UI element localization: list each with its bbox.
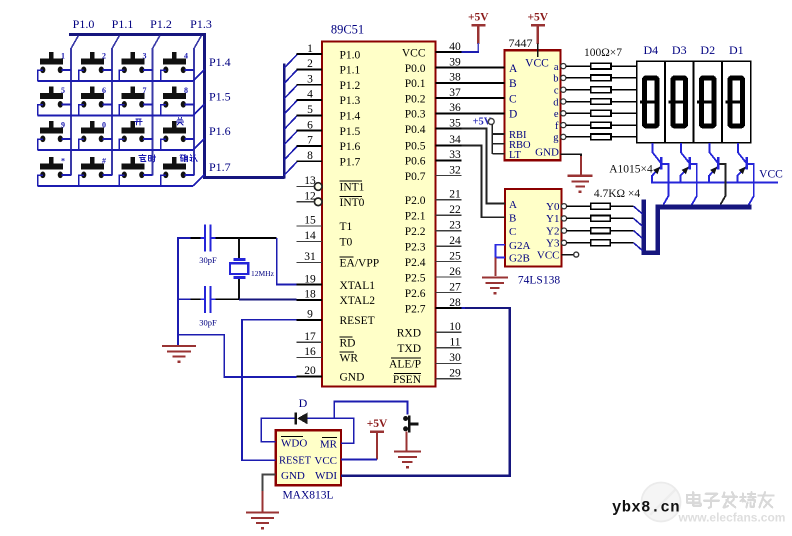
svg-text:32: 32 bbox=[449, 164, 461, 176]
svg-text:g: g bbox=[553, 133, 559, 144]
svg-text:P1.5: P1.5 bbox=[340, 126, 361, 138]
svg-text:D4: D4 bbox=[643, 43, 658, 57]
svg-text:P2.2: P2.2 bbox=[405, 226, 426, 238]
C1 left blue lead bbox=[178, 237, 191, 239]
svg-text:VCC: VCC bbox=[525, 58, 549, 70]
74LS138 VCC stub bbox=[562, 254, 574, 256]
pushbutton key 4 (row 1, col 4) bbox=[172, 52, 177, 59]
transistor Q1 A1015 (PNP) bbox=[652, 143, 654, 153]
display divider bbox=[664, 61, 666, 143]
svg-text:12MHz: 12MHz bbox=[251, 269, 275, 278]
svg-text:P1.1: P1.1 bbox=[112, 17, 134, 31]
wire 7447 GND bbox=[561, 154, 582, 175]
svg-text:VCC: VCC bbox=[402, 47, 426, 59]
74LS138 Y1 bubble bbox=[561, 216, 566, 221]
svg-text:30pF: 30pF bbox=[199, 318, 217, 328]
svg-text:27: 27 bbox=[449, 281, 461, 293]
svg-text:+5V: +5V bbox=[527, 11, 548, 23]
svg-text:Y2: Y2 bbox=[546, 225, 559, 237]
bus entry tick Y3 bbox=[634, 243, 643, 251]
svg-text:8: 8 bbox=[307, 150, 313, 162]
watermark char bbox=[759, 494, 774, 496]
wire pin40 to +5V bbox=[462, 51, 479, 53]
svg-text:RXD: RXD bbox=[397, 328, 421, 340]
svg-text:G2B: G2B bbox=[509, 253, 530, 265]
wire +5V stem red bbox=[477, 26, 479, 44]
89C51 pin 16 (WR) bbox=[297, 356, 323, 358]
bus entry tick to pin 4 bbox=[284, 100, 297, 114]
watermark logo circle bbox=[642, 483, 681, 522]
svg-text:36: 36 bbox=[449, 102, 461, 114]
bus entry tick to pin 3 bbox=[284, 85, 297, 99]
89C51 pin 35 (P0.4) bbox=[436, 128, 462, 130]
wire to LT bbox=[492, 153, 504, 155]
ground (74LS138 G2) bbox=[482, 276, 508, 278]
wire WDO to diode bbox=[261, 418, 294, 441]
vertical ground wire bbox=[177, 237, 179, 346]
MAX813L watchdog U4 body bbox=[276, 430, 341, 485]
resistor R4 100ohm (segment d) bbox=[566, 101, 591, 103]
svg-text:RESET: RESET bbox=[340, 315, 375, 327]
svg-text:7: 7 bbox=[307, 135, 313, 147]
svg-text:D: D bbox=[509, 109, 517, 121]
diode D cathode bar bbox=[294, 412, 297, 424]
transistor Q3 A1015 (PNP) bbox=[709, 143, 711, 153]
svg-text:4: 4 bbox=[307, 89, 313, 101]
resistor R10 4.7K (Y0) bbox=[567, 205, 591, 207]
7447 output d bubble bbox=[561, 99, 566, 104]
display digit D2 figure-8 bbox=[701, 78, 714, 126]
pushbutton key 1 (row 1, col 1) bbox=[49, 52, 54, 59]
resistor R13 4.7K (Y3) bbox=[567, 242, 591, 244]
svg-text:21: 21 bbox=[449, 188, 461, 200]
display digit D3 figure-8 bbox=[673, 78, 686, 126]
wire WDI to P2.7 (pin 28) bbox=[341, 308, 510, 476]
svg-text:P2.7: P2.7 bbox=[405, 303, 426, 315]
svg-text:A: A bbox=[509, 63, 518, 75]
89C51 pin 2 (P1.1) bbox=[297, 68, 323, 70]
89C51 pin 4 (P1.3) bbox=[297, 99, 323, 101]
wire pin 39 to 7447 A bbox=[462, 67, 505, 69]
svg-text:25: 25 bbox=[449, 250, 461, 262]
svg-text:23: 23 bbox=[449, 219, 461, 231]
svg-text:a: a bbox=[554, 62, 559, 73]
89C51 pin 25 (P2.4) bbox=[436, 261, 462, 263]
svg-text:P1.4: P1.4 bbox=[340, 111, 361, 123]
keypad bus: bottom horizontal to MCU bbox=[203, 176, 285, 179]
7447 output a bubble bbox=[561, 64, 566, 69]
resistor R11 4.7K (Y1) bbox=[567, 217, 591, 219]
G2A stub bbox=[496, 244, 506, 246]
ground (7447) bbox=[568, 175, 593, 177]
svg-text:5: 5 bbox=[61, 86, 65, 95]
svg-text:22: 22 bbox=[449, 204, 461, 216]
wire 7447 +5V stem black bbox=[537, 44, 539, 58]
wire RESET: 89C51 pin9 to MAX813L bbox=[242, 320, 297, 461]
svg-text:14: 14 bbox=[304, 230, 316, 242]
89C51 pin 9 (RESET) bbox=[297, 319, 323, 321]
svg-text:RESET: RESET bbox=[279, 456, 312, 467]
svg-text:8: 8 bbox=[184, 86, 188, 95]
watermark char bbox=[723, 493, 724, 497]
svg-text:P1.6: P1.6 bbox=[340, 141, 361, 153]
svg-text:P1.2: P1.2 bbox=[150, 17, 172, 31]
C1 left lead black bbox=[190, 237, 201, 239]
svg-text:c: c bbox=[554, 86, 559, 97]
svg-text:P1.5: P1.5 bbox=[209, 90, 231, 104]
resistor R12 4.7K (Y2) bbox=[567, 230, 591, 232]
svg-text:P0.6: P0.6 bbox=[405, 156, 426, 168]
svg-text:7447: 7447 bbox=[509, 36, 533, 50]
bus entry tick to pin 5 bbox=[284, 116, 297, 130]
GND net from crystal ground to pin 20 bbox=[178, 335, 297, 377]
svg-text:34: 34 bbox=[449, 134, 461, 146]
7447 output f bubble bbox=[561, 123, 566, 128]
89C51 pin 3 (P1.2) bbox=[297, 84, 323, 86]
wire to RBO bbox=[492, 143, 504, 145]
svg-text:37: 37 bbox=[449, 87, 461, 99]
resistor R7 100ohm (segment g) bbox=[566, 136, 591, 138]
svg-text:e: e bbox=[554, 109, 559, 120]
ground (crystal) bbox=[162, 345, 196, 347]
svg-text:15: 15 bbox=[304, 215, 316, 227]
svg-text:30: 30 bbox=[449, 352, 461, 364]
wire VCC bbox=[341, 458, 377, 460]
svg-text:GND: GND bbox=[340, 372, 365, 384]
89C51 pin 38 (P0.1) bbox=[436, 82, 462, 84]
svg-text:MAX813L: MAX813L bbox=[282, 490, 333, 502]
pushbutton key 6 (row 2, col 2) bbox=[90, 86, 95, 93]
svg-text:4: 4 bbox=[184, 51, 188, 60]
svg-text:WDI: WDI bbox=[315, 470, 337, 482]
wire P0.4 (pin35) to 74LS138 A bbox=[462, 129, 506, 204]
VCC rail for transistors bbox=[651, 182, 778, 184]
wire diode to MR bbox=[308, 418, 354, 443]
89C51 pin 36 (P0.3) bbox=[436, 112, 462, 114]
svg-text:VCC: VCC bbox=[537, 250, 560, 262]
C2 plate 1 bbox=[204, 286, 206, 313]
wire pin 38 to 7447 B bbox=[462, 82, 505, 84]
C1 right stub blue bbox=[211, 237, 215, 239]
89C51 pin 12 (INT0) bbox=[314, 198, 322, 206]
svg-text:B: B bbox=[509, 213, 516, 225]
resistor R5 100ohm (segment e) bbox=[566, 112, 591, 114]
svg-text:100Ω×7: 100Ω×7 bbox=[584, 47, 622, 59]
svg-text:P1.7: P1.7 bbox=[209, 160, 231, 174]
svg-text:#: # bbox=[102, 156, 106, 165]
74LS138 Y3 bubble bbox=[561, 240, 566, 245]
keypad row wire 1 bbox=[38, 80, 193, 82]
display divider bbox=[692, 61, 694, 143]
89C51 pin 17 (RD) bbox=[297, 341, 323, 343]
svg-text:1: 1 bbox=[307, 43, 313, 55]
svg-text:P1.2: P1.2 bbox=[340, 80, 361, 92]
wire button to ground bbox=[406, 432, 408, 452]
svg-text:P0.3: P0.3 bbox=[405, 109, 426, 121]
bus entry tick to pin 6 bbox=[284, 131, 297, 145]
svg-text:C: C bbox=[509, 93, 517, 105]
pushbutton key 7 (row 2, col 3) bbox=[130, 86, 135, 93]
89C51 pin 20 (GND) bbox=[297, 376, 323, 378]
crystal top lead bbox=[238, 238, 240, 258]
pushbutton key 关 (row 3, col 4) bbox=[172, 121, 177, 128]
svg-text:INT0: INT0 bbox=[340, 197, 365, 209]
svg-text:G2A: G2A bbox=[509, 240, 530, 252]
transistor Q2 A1015 (PNP) bbox=[680, 143, 682, 153]
svg-text:A1015×4: A1015×4 bbox=[609, 164, 653, 176]
svg-text:P1.3: P1.3 bbox=[190, 17, 212, 31]
svg-text:6: 6 bbox=[102, 86, 106, 95]
svg-text:29: 29 bbox=[449, 368, 461, 380]
keypad column wire 1 bbox=[71, 36, 78, 49]
resistor R1 100ohm (segment a) bbox=[566, 65, 591, 67]
svg-text:17: 17 bbox=[304, 331, 316, 343]
svg-text:A: A bbox=[509, 199, 517, 211]
svg-text:f: f bbox=[555, 121, 559, 132]
svg-text:P2.3: P2.3 bbox=[405, 241, 426, 253]
keypad column wire 3 bbox=[153, 36, 160, 49]
89C51 MCU U1 body bbox=[322, 42, 436, 387]
89C51 pin 13 (INT1) bbox=[314, 183, 322, 191]
svg-text:40: 40 bbox=[449, 41, 461, 53]
Q2 base wire to bus bbox=[691, 164, 697, 205]
svg-text:2: 2 bbox=[102, 51, 106, 60]
C1 right lead to XTAL1 net bbox=[215, 237, 276, 239]
svg-text:B: B bbox=[509, 78, 517, 90]
svg-text:11: 11 bbox=[449, 337, 460, 349]
89C51 pin 19 (XTAL1) bbox=[297, 284, 323, 286]
89C51 pin 34 (P0.5) bbox=[436, 145, 462, 147]
89C51 pin 1 (P1.0) bbox=[297, 53, 323, 55]
crystal bottom lead bbox=[238, 279, 240, 299]
svg-text:3: 3 bbox=[307, 73, 313, 85]
svg-text:D1: D1 bbox=[729, 43, 744, 57]
svg-text:74LS138: 74LS138 bbox=[518, 275, 560, 287]
89C51 pin 10 (RXD) bbox=[436, 331, 462, 333]
svg-text:ybx8.cn: ybx8.cn bbox=[612, 499, 680, 517]
svg-text:P0.0: P0.0 bbox=[405, 63, 426, 75]
watermark char bbox=[706, 493, 718, 495]
svg-text:1: 1 bbox=[61, 51, 65, 60]
svg-text:20: 20 bbox=[304, 365, 316, 377]
button dot top bbox=[403, 416, 408, 421]
svg-text:ALE/P: ALE/P bbox=[389, 359, 421, 371]
pushbutton key 确认 (row 4, col 4) bbox=[172, 157, 177, 164]
74LS138 Y2 bubble bbox=[561, 228, 566, 233]
89C51 pin 15 (T1) bbox=[297, 225, 323, 227]
keypad row wire 2 bbox=[38, 115, 193, 117]
crystal body bbox=[230, 263, 248, 274]
bus entry tick to pin 8 bbox=[284, 162, 297, 176]
diode D anode triangle bbox=[297, 413, 307, 425]
wire P0.5 (pin34) to 74LS138 B bbox=[462, 146, 506, 218]
watermark char bbox=[742, 494, 744, 502]
pushbutton key # (row 4, col 2) bbox=[90, 157, 95, 164]
C1 left stub blue bbox=[201, 237, 205, 239]
keypad row wire 4 bbox=[38, 185, 193, 187]
svg-text:WDO: WDO bbox=[281, 437, 307, 449]
svg-text:33: 33 bbox=[449, 149, 461, 161]
pushbutton key 9 (row 3, col 1) bbox=[49, 121, 54, 128]
pushbutton key * (row 4, col 1) bbox=[49, 157, 54, 164]
89C51 pin 8 (P1.7) bbox=[297, 160, 323, 162]
svg-text:VCC: VCC bbox=[314, 455, 337, 467]
svg-text:2: 2 bbox=[307, 58, 313, 70]
svg-text:26: 26 bbox=[449, 266, 461, 278]
svg-text:*: * bbox=[61, 156, 65, 165]
button bar bbox=[408, 416, 411, 433]
transistor Q4 A1015 (PNP) bbox=[737, 143, 739, 153]
bus entry tick Y1 bbox=[634, 218, 643, 226]
svg-text:18: 18 bbox=[304, 289, 316, 301]
resistor R3 100ohm (segment c) bbox=[566, 89, 591, 91]
svg-text:EA/VPP: EA/VPP bbox=[340, 258, 380, 270]
bus polyline bbox=[644, 200, 752, 253]
74LS138 VCC open circle bbox=[574, 252, 579, 257]
svg-text:4.7KΩ ×4: 4.7KΩ ×4 bbox=[594, 188, 641, 200]
svg-text:5: 5 bbox=[307, 104, 313, 116]
button stem bbox=[411, 422, 419, 425]
G2B stub bbox=[496, 257, 506, 259]
89C51 pin 39 (P0.0) bbox=[436, 67, 462, 69]
svg-text:P1.0: P1.0 bbox=[340, 49, 361, 61]
svg-text:TXD: TXD bbox=[397, 343, 421, 355]
svg-text:P2.5: P2.5 bbox=[405, 272, 426, 284]
crystal bottom plate bbox=[234, 276, 246, 279]
wire +5V to LT vertical bbox=[491, 124, 493, 154]
svg-text:GND: GND bbox=[281, 470, 305, 482]
7447 BCD decoder U2 body bbox=[505, 50, 561, 160]
wire to RBI bbox=[492, 133, 504, 135]
C2 left stub blue bbox=[201, 298, 205, 300]
svg-text:3: 3 bbox=[143, 51, 147, 60]
wire XTAL1 net bbox=[277, 238, 297, 285]
svg-text:P2.6: P2.6 bbox=[405, 288, 426, 300]
bus entry tick to pin 7 bbox=[284, 146, 297, 160]
pushbutton key 开 (row 3, col 3) bbox=[130, 121, 135, 128]
svg-text:9: 9 bbox=[307, 309, 313, 321]
svg-text:WR: WR bbox=[340, 353, 359, 365]
svg-text:P0.2: P0.2 bbox=[405, 93, 426, 105]
wire MR net to reset button bbox=[334, 402, 407, 419]
89C51 pin 14 (T0) bbox=[297, 240, 323, 242]
svg-text:C: C bbox=[509, 226, 516, 238]
crystal top plate bbox=[234, 258, 246, 261]
svg-text:Y0: Y0 bbox=[546, 201, 560, 213]
svg-text:XTAL1: XTAL1 bbox=[340, 280, 376, 292]
89C51 pin 29 (PSEN) bbox=[436, 378, 462, 380]
C1 plate 1 bbox=[204, 225, 206, 252]
svg-text:P2.1: P2.1 bbox=[405, 210, 426, 222]
pushbutton key 3 (row 1, col 3) bbox=[130, 52, 135, 59]
89C51 pin 40 (VCC) bbox=[436, 51, 462, 53]
svg-text:+5V: +5V bbox=[468, 11, 489, 23]
svg-text:d: d bbox=[553, 97, 559, 108]
7-segment display module outer box bbox=[637, 61, 751, 143]
MAX813L GND to ground bbox=[263, 474, 276, 492]
svg-text:0: 0 bbox=[102, 120, 106, 129]
watermark char bbox=[687, 494, 700, 496]
svg-text:P1.7: P1.7 bbox=[340, 156, 361, 168]
pushbutton key 0 (row 3, col 2) bbox=[90, 121, 95, 128]
svg-text:Y3: Y3 bbox=[546, 238, 560, 250]
keypad row wire 3 bbox=[38, 149, 193, 151]
svg-text:LT: LT bbox=[509, 150, 521, 161]
svg-text:P1.6: P1.6 bbox=[209, 124, 231, 138]
89C51 pin 28 (P2.7) bbox=[436, 307, 462, 309]
svg-text:24: 24 bbox=[449, 235, 461, 247]
svg-text:38: 38 bbox=[449, 72, 461, 84]
svg-text:12: 12 bbox=[304, 191, 316, 203]
+5V stem bbox=[376, 433, 378, 460]
C2 plate 2 bbox=[210, 286, 212, 313]
svg-text:D: D bbox=[299, 396, 308, 410]
svg-text:T1: T1 bbox=[340, 221, 353, 233]
pushbutton key 5 (row 2, col 1) bbox=[49, 86, 54, 93]
svg-text:MR: MR bbox=[320, 438, 338, 450]
89C51 pin 18 (XTAL2) bbox=[297, 299, 323, 301]
Q4 base wire to bus bbox=[748, 164, 754, 205]
keypad bus: right vertical bbox=[203, 33, 206, 179]
svg-text:INT1: INT1 bbox=[340, 182, 365, 194]
bus entry tick Y0 bbox=[634, 206, 643, 214]
bus entry tick Y2 bbox=[634, 231, 643, 239]
svg-text:39: 39 bbox=[449, 56, 461, 68]
svg-text:P1.1: P1.1 bbox=[340, 65, 361, 77]
svg-text:T0: T0 bbox=[340, 237, 353, 249]
bus entry tick to pin 2 bbox=[284, 70, 297, 84]
C2 right stub blue bbox=[211, 298, 215, 300]
C2 left lead black bbox=[190, 298, 201, 300]
svg-text:7: 7 bbox=[143, 86, 147, 95]
keypad column wire 4 bbox=[194, 36, 201, 49]
89C51 pin 5 (P1.4) bbox=[297, 114, 323, 116]
89C51 pin 30 (ALE/P) bbox=[436, 362, 462, 364]
resistor R2 100ohm (segment b) bbox=[566, 77, 591, 79]
svg-text:35: 35 bbox=[449, 117, 461, 129]
display divider bbox=[721, 61, 723, 143]
svg-text:PSEN: PSEN bbox=[393, 374, 422, 386]
89C51 pin 26 (P2.5) bbox=[436, 276, 462, 278]
svg-text:P1.3: P1.3 bbox=[340, 95, 361, 107]
7447 output e bubble bbox=[561, 111, 566, 116]
+5V port circle bbox=[488, 119, 494, 125]
svg-text:+5V: +5V bbox=[367, 418, 388, 430]
svg-text:XTAL2: XTAL2 bbox=[340, 295, 376, 307]
74LS138 Y0 bubble bbox=[561, 204, 566, 209]
svg-text:P0.1: P0.1 bbox=[405, 78, 426, 90]
keypad column wire 2 bbox=[112, 36, 119, 49]
svg-text:b: b bbox=[553, 74, 558, 85]
pushbutton key 2 (row 1, col 2) bbox=[90, 52, 95, 59]
svg-text:P1.4: P1.4 bbox=[209, 55, 231, 69]
svg-text:GND: GND bbox=[535, 147, 559, 159]
svg-text:10: 10 bbox=[449, 321, 461, 333]
89C51 pin 37 (P0.2) bbox=[436, 97, 462, 99]
svg-text:P0.4: P0.4 bbox=[405, 124, 426, 136]
89C51 pin 6 (P1.5) bbox=[297, 130, 323, 132]
svg-text:31: 31 bbox=[304, 251, 316, 263]
89C51 pin 7 (P1.6) bbox=[297, 145, 323, 147]
svg-text:P2.0: P2.0 bbox=[405, 195, 426, 207]
display digit D4 figure-8 bbox=[644, 78, 657, 126]
button dot bottom bbox=[403, 426, 408, 431]
svg-text:13: 13 bbox=[304, 175, 316, 187]
ground (MAX813L) bbox=[246, 511, 279, 513]
89C51 pin 24 (P2.3) bbox=[436, 245, 462, 247]
svg-text:Y1: Y1 bbox=[546, 213, 559, 225]
wire XTAL2 net thick bbox=[239, 298, 297, 300]
